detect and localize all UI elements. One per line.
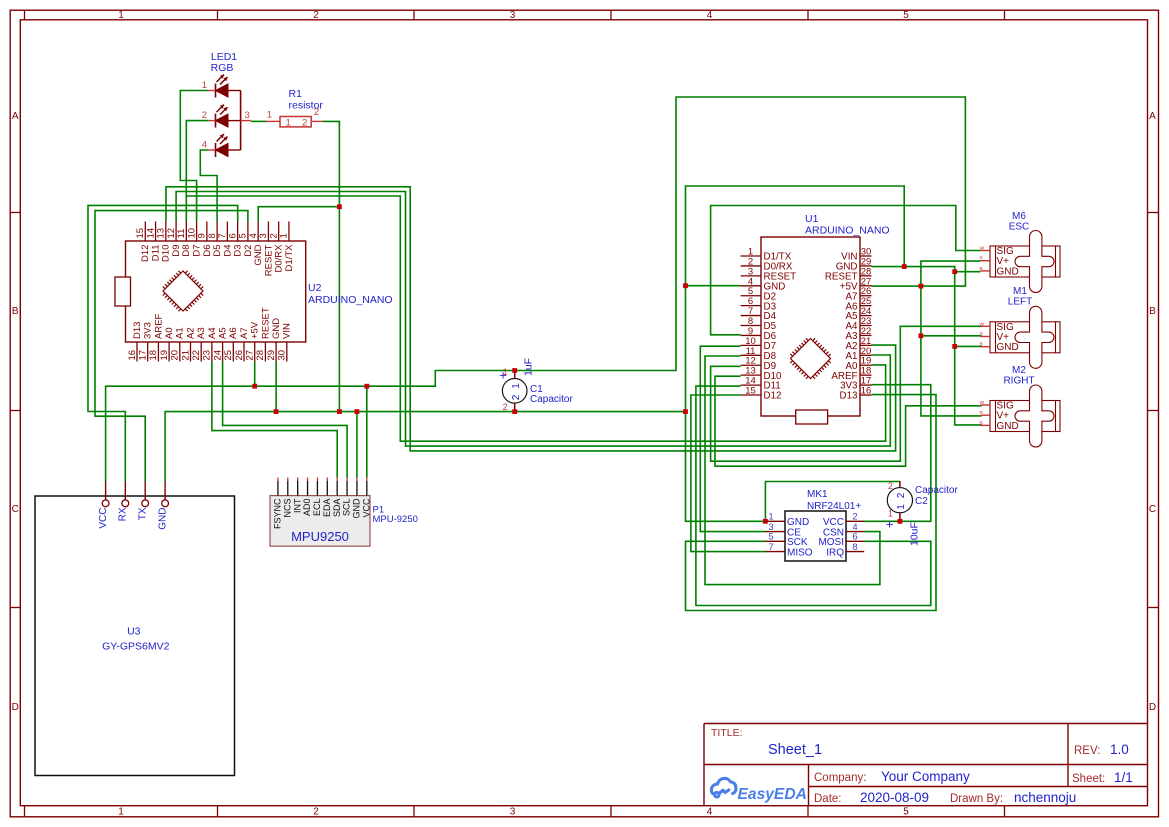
svg-text:GND: GND	[158, 508, 169, 530]
svg-text:ESC: ESC	[1009, 222, 1030, 233]
svg-text:ECL: ECL	[312, 499, 322, 517]
svg-text:Capacitor: Capacitor	[915, 485, 958, 496]
svg-text:B: B	[1149, 306, 1156, 317]
svg-text:U1: U1	[805, 213, 819, 225]
svg-text:17: 17	[138, 350, 149, 361]
svg-text:D: D	[12, 702, 19, 713]
svg-text:nchennoju: nchennoju	[1014, 790, 1076, 805]
svg-text:MPU-9250: MPU-9250	[373, 514, 418, 525]
svg-text:1: 1	[118, 10, 124, 21]
svg-text:23: 23	[202, 350, 213, 361]
svg-text:2: 2	[896, 492, 907, 498]
svg-text:Sheet_1: Sheet_1	[768, 742, 822, 758]
svg-text:+5V: +5V	[250, 321, 261, 339]
svg-text:18: 18	[148, 350, 159, 361]
svg-text:SDA: SDA	[332, 499, 342, 518]
svg-text:D: D	[1149, 702, 1156, 713]
svg-text:1: 1	[202, 80, 207, 91]
svg-text:A: A	[1149, 111, 1156, 122]
svg-text:Sheet:: Sheet:	[1072, 773, 1105, 785]
svg-text:1: 1	[888, 509, 893, 519]
svg-text:MK1: MK1	[807, 489, 828, 500]
svg-text:W: W	[980, 400, 985, 406]
svg-text:R: R	[980, 410, 984, 416]
svg-text:VIN: VIN	[282, 323, 293, 339]
svg-text:Your Company: Your Company	[881, 769, 970, 784]
svg-text:RESET: RESET	[260, 307, 271, 339]
svg-text:NCS: NCS	[282, 499, 292, 518]
svg-text:2: 2	[511, 394, 522, 400]
svg-text:M2: M2	[1012, 365, 1026, 376]
svg-text:1: 1	[279, 233, 290, 238]
svg-text:3V3: 3V3	[143, 322, 154, 339]
svg-text:FSYNC: FSYNC	[273, 498, 283, 529]
svg-text:16: 16	[127, 350, 138, 361]
svg-text:1uF: 1uF	[523, 358, 535, 376]
svg-text:8: 8	[852, 542, 857, 553]
svg-text:RX: RX	[118, 507, 129, 521]
svg-text:2: 2	[313, 10, 319, 21]
svg-text:22: 22	[191, 350, 202, 361]
svg-text:A7: A7	[239, 327, 250, 339]
svg-text:U3: U3	[127, 626, 141, 638]
svg-text:B: B	[12, 306, 19, 317]
svg-text:ARDUINO_NANO: ARDUINO_NANO	[308, 294, 393, 306]
svg-text:3: 3	[510, 10, 516, 21]
svg-text:EDA: EDA	[322, 499, 332, 518]
svg-text:VCC: VCC	[98, 508, 109, 529]
svg-text:1: 1	[267, 110, 272, 121]
svg-text:10uF: 10uF	[909, 522, 921, 546]
svg-text:D13: D13	[840, 391, 859, 402]
svg-text:TX: TX	[138, 507, 149, 520]
svg-text:16: 16	[861, 386, 872, 397]
svg-text:28: 28	[255, 350, 266, 361]
svg-text:A4: A4	[207, 327, 218, 339]
svg-text:20: 20	[170, 350, 181, 361]
svg-text:30: 30	[277, 350, 288, 361]
svg-text:Company:: Company:	[814, 772, 866, 784]
svg-text:3: 3	[245, 110, 250, 121]
svg-text:1.0: 1.0	[1110, 742, 1129, 757]
svg-text:1: 1	[511, 383, 522, 389]
svg-text:2020-08-09: 2020-08-09	[860, 790, 929, 805]
svg-text:5: 5	[903, 807, 909, 818]
svg-text:GND: GND	[997, 342, 1019, 353]
svg-text:EasyEDA: EasyEDA	[738, 786, 807, 803]
svg-text:D13: D13	[132, 322, 143, 339]
svg-text:A1: A1	[175, 327, 186, 339]
svg-text:GND: GND	[997, 266, 1019, 277]
svg-text:VCC: VCC	[361, 498, 371, 518]
svg-text:1: 1	[286, 117, 291, 128]
svg-text:MPU9250: MPU9250	[291, 529, 349, 544]
svg-text:2: 2	[888, 481, 893, 491]
svg-text:B: B	[980, 266, 983, 272]
svg-text:LEFT: LEFT	[1008, 297, 1032, 308]
svg-text:21: 21	[180, 350, 191, 361]
svg-text:C: C	[1149, 504, 1156, 515]
svg-text:A5: A5	[218, 327, 229, 339]
svg-text:AD0: AD0	[302, 499, 312, 517]
svg-text:4: 4	[202, 140, 207, 151]
svg-text:U2: U2	[308, 282, 322, 294]
svg-text:C: C	[12, 504, 19, 515]
svg-text:2: 2	[503, 402, 508, 412]
svg-text:2: 2	[313, 807, 319, 818]
svg-text:A: A	[12, 111, 19, 122]
svg-text:INT: INT	[292, 498, 302, 513]
svg-text:Drawn By:: Drawn By:	[950, 793, 1003, 805]
svg-text:M1: M1	[1013, 286, 1027, 297]
svg-text:GND: GND	[352, 498, 362, 519]
svg-text:25: 25	[223, 350, 234, 361]
svg-text:TITLE:: TITLE:	[711, 727, 743, 739]
svg-text:1: 1	[118, 807, 124, 818]
svg-text:MISO: MISO	[787, 547, 813, 558]
svg-text:5: 5	[903, 10, 909, 21]
svg-text:1: 1	[896, 504, 907, 510]
svg-text:R: R	[980, 332, 984, 338]
svg-text:R1: R1	[289, 88, 303, 100]
svg-text:15: 15	[745, 386, 756, 397]
svg-text:1/1: 1/1	[1114, 770, 1133, 785]
svg-text:A6: A6	[228, 327, 239, 339]
svg-text:R: R	[980, 256, 984, 262]
svg-text:4: 4	[707, 807, 713, 818]
svg-text:+: +	[886, 517, 894, 532]
svg-text:4: 4	[707, 10, 713, 21]
svg-text:SCL: SCL	[342, 499, 352, 517]
svg-text:AREF: AREF	[153, 313, 164, 339]
svg-text:GY-GPS6MV2: GY-GPS6MV2	[102, 641, 169, 653]
svg-text:D12: D12	[764, 391, 782, 402]
svg-text:2: 2	[202, 110, 207, 121]
svg-text:A0: A0	[164, 327, 175, 339]
svg-text:3: 3	[510, 807, 516, 818]
svg-text:GND: GND	[997, 421, 1019, 432]
svg-text:W: W	[980, 246, 985, 252]
svg-text:W: W	[980, 321, 985, 327]
svg-text:29: 29	[266, 350, 277, 361]
svg-text:B: B	[980, 342, 983, 348]
svg-text:ARDUINO_NANO: ARDUINO_NANO	[805, 225, 890, 237]
svg-text:A3: A3	[196, 327, 207, 339]
svg-text:1: 1	[503, 367, 508, 377]
svg-text:Date:: Date:	[814, 793, 842, 805]
svg-text:2: 2	[302, 117, 307, 128]
svg-text:NRF24L01+: NRF24L01+	[807, 501, 861, 512]
svg-text:resistor: resistor	[289, 100, 324, 112]
svg-text:GND: GND	[271, 318, 282, 339]
svg-text:24: 24	[212, 350, 223, 361]
svg-text:B: B	[980, 420, 983, 426]
svg-text:D1/TX: D1/TX	[284, 244, 295, 272]
svg-text:RGB: RGB	[211, 62, 234, 74]
svg-text:7: 7	[768, 542, 773, 553]
svg-text:26: 26	[234, 350, 245, 361]
svg-text:19: 19	[159, 350, 170, 361]
svg-text:M6: M6	[1012, 211, 1026, 222]
svg-text:Capacitor: Capacitor	[530, 394, 573, 405]
svg-text:RIGHT: RIGHT	[1003, 376, 1034, 387]
svg-text:A2: A2	[185, 327, 196, 339]
svg-text:REV:: REV:	[1074, 745, 1100, 757]
svg-text:IRQ: IRQ	[826, 547, 844, 558]
svg-text:C2: C2	[915, 496, 928, 507]
svg-text:27: 27	[245, 350, 256, 361]
